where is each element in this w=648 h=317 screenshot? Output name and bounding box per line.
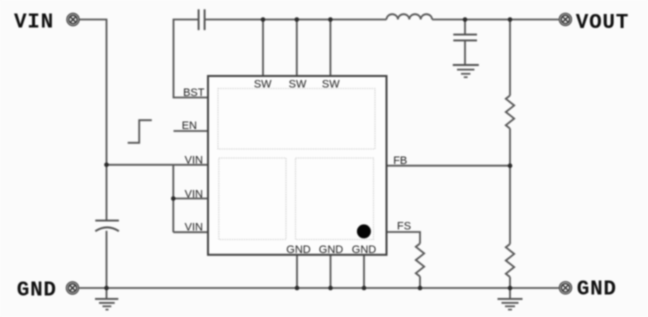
capacitor C2 bootstrap [199, 9, 205, 30]
ground under C3 [453, 65, 479, 77]
svg-text:EN: EN [182, 120, 197, 132]
wire C3 top leg [464, 20, 466, 35]
wire FS pin to R3 [387, 232, 421, 244]
svg-text:GND: GND [352, 244, 377, 256]
wire SW pin 1 [262, 20, 264, 77]
wire C3 bottom leg [464, 40, 466, 64]
junction R1 top [508, 17, 513, 22]
wire input column below C1 to ground [106, 231, 108, 299]
wire GND pin 3 [363, 255, 365, 288]
wire FB pin [387, 165, 511, 167]
junction rail GND2 [328, 286, 333, 291]
ground symbol left [95, 299, 118, 310]
svg-text:VIN: VIN [185, 189, 203, 201]
svg-text:GND: GND [17, 279, 57, 302]
wire R3 to ground rail [419, 277, 421, 289]
junction VIN row1 [104, 163, 109, 168]
svg-text:SW: SW [289, 78, 307, 90]
svg-text:VIN: VIN [14, 12, 54, 35]
junction rail GND3 [362, 286, 367, 291]
wire top rail C2 to inductor [205, 19, 386, 21]
junction SW1 top [261, 17, 266, 22]
resistor R1 upper feedback [506, 96, 514, 129]
wire GND pin 1 [296, 255, 298, 288]
wire VIN pins vertical link [172, 165, 174, 232]
enable step waveform symbol [128, 120, 152, 143]
wire SW pin 3 [329, 20, 331, 77]
wire inductor to VOUT terminal [432, 19, 559, 21]
wire VIN terminal to input column [80, 20, 107, 221]
svg-text:SW: SW [322, 78, 340, 90]
wire bottom ground rail [79, 287, 559, 289]
ground symbol right [498, 299, 523, 310]
junction SW2 top [295, 17, 300, 22]
wire VIN pin row 1 [107, 164, 209, 166]
IC inner block bottom-left [219, 158, 286, 240]
terminal GND right [559, 282, 571, 294]
svg-text:GND: GND [286, 244, 311, 256]
wire R1 to FB node and down [509, 129, 511, 245]
junction rail R3 [418, 286, 423, 291]
wire GND pin 2 [330, 255, 332, 288]
junction rail GND1 [295, 286, 300, 291]
wire feedback column top [509, 20, 511, 96]
svg-text:GND: GND [319, 244, 344, 256]
terminal VIN [67, 13, 79, 25]
junction C3 top [463, 17, 468, 22]
IC U1 outline [208, 76, 387, 255]
junction FB node [508, 163, 513, 168]
resistor R3 frequency set [416, 244, 424, 277]
terminal VOUT [559, 13, 571, 25]
junction SW3 top [328, 17, 333, 22]
svg-text:FB: FB [393, 155, 407, 167]
inductor L1 [387, 14, 433, 19]
capacitor C1 input (polarized) [95, 221, 119, 232]
svg-text:SW: SW [254, 78, 272, 90]
junction rail C1 [104, 286, 109, 291]
wire VIN pin row 2 [173, 198, 208, 200]
svg-text:FS: FS [397, 220, 411, 232]
resistor R2 lower feedback [506, 244, 514, 277]
IC inner block top [218, 89, 375, 150]
svg-text:VIN: VIN [185, 154, 203, 166]
wire VIN pin row 3 [173, 231, 208, 233]
svg-text:VOUT: VOUT [576, 12, 629, 35]
wire EN pin [174, 130, 209, 132]
svg-text:BST: BST [183, 87, 205, 99]
svg-text:GND: GND [577, 279, 617, 302]
svg-text:VIN: VIN [185, 222, 203, 234]
terminal GND left [66, 282, 78, 294]
IC pad dot [357, 224, 371, 238]
wire R2 to ground rail [509, 277, 511, 299]
wire BST pin up to bootstrap rail [174, 20, 209, 98]
junction rail R2 [508, 286, 513, 291]
wire SW pin 2 [296, 20, 298, 77]
capacitor C3 output [453, 35, 477, 41]
IC inner block bottom-right [296, 158, 374, 240]
junction VIN row2 [171, 196, 176, 201]
